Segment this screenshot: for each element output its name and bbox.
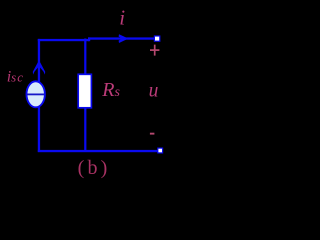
wire: resistor top lead	[84, 39, 86, 75]
arrow: current i direction (right) on top wire	[119, 34, 129, 43]
current source Isc: circle body	[27, 81, 45, 107]
resistor Rs: body	[78, 74, 91, 108]
wire: top horizontal right segment	[88, 37, 155, 39]
svg-text:(b): (b)	[78, 157, 111, 179]
terminal: bottom-right node square	[158, 148, 163, 153]
wire: bottom horizontal	[38, 150, 158, 152]
terminal: top-right node square	[154, 36, 159, 41]
wire: junction step at resistor top node	[88, 37, 90, 41]
current source Isc: horizontal chord	[27, 94, 45, 96]
wire: left vertical upper segment	[38, 39, 40, 83]
svg-text:isc: isc	[7, 68, 24, 85]
wire: left vertical lower segment	[38, 106, 40, 152]
current source Isc: arrow head (up)	[33, 60, 45, 74]
wire: resistor bottom lead	[84, 108, 86, 151]
label: plus sign	[150, 45, 159, 56]
wire: top horizontal left segment	[38, 39, 90, 41]
svg-text:u: u	[149, 80, 159, 101]
label: minus sign	[150, 133, 155, 135]
svg-text:i: i	[119, 6, 125, 30]
